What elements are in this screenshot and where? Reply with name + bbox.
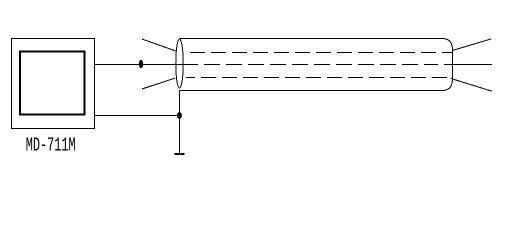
module U1 MD-711M outer body (12, 39, 95, 129)
conductor 1 right breakout (453, 39, 492, 51)
conductor 3 dashed (hidden) (186, 77, 451, 79)
module U1 inner face (20, 52, 85, 115)
conductor 1 dashed (hidden) (190, 52, 453, 54)
conductor 2 dashed center (hidden) (204, 64, 438, 66)
conductor 3 left breakout (142, 78, 175, 89)
svg-text:MD-711M: MD-711M (26, 135, 76, 157)
wire center conductor from U1 (95, 64, 199, 66)
wire shield drop to ground (179, 91, 181, 155)
wire shield return from U1 (95, 115, 180, 117)
junction dot A on center conductor (139, 60, 143, 68)
ground (175, 153, 185, 155)
conductor 1 left breakout (142, 39, 176, 51)
conductor 2 right lead (444, 64, 492, 66)
label MD-711M (26, 135, 76, 157)
junction dot B on shield wire (177, 112, 182, 119)
conductor 3 right breakout (451, 78, 492, 91)
cable W1 shell outline (180, 39, 453, 91)
cable W1 left end ellipse (176, 39, 184, 88)
